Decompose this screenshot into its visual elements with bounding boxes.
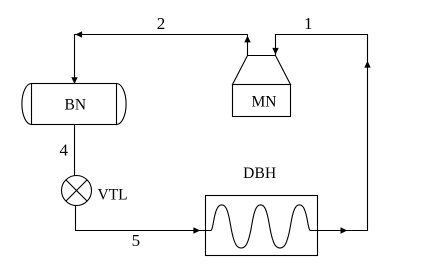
wire right riser bbox=[367, 35, 369, 232]
heater DBH box bbox=[206, 196, 318, 256]
wire VTL down bbox=[75, 206, 77, 231]
svg-text:DBH: DBH bbox=[243, 165, 276, 182]
valve VTL circle bbox=[62, 176, 92, 206]
vessel BN body bbox=[32, 84, 117, 125]
wire MN outlet up bbox=[247, 35, 249, 56]
wire stream 5 horizontal bbox=[75, 230, 206, 232]
arrowhead up on MN outlet bbox=[244, 36, 250, 43]
arrowhead down into MN bbox=[272, 48, 278, 55]
svg-text:5: 5 bbox=[132, 231, 141, 250]
svg-text:BN: BN bbox=[65, 96, 87, 113]
arrowhead up on right riser bbox=[364, 61, 370, 68]
svg-text:2: 2 bbox=[157, 14, 166, 33]
vessel BN right cap bbox=[117, 84, 127, 125]
arrowhead left at stream 2 corner bbox=[75, 31, 82, 37]
heater DBH coil bbox=[206, 205, 318, 248]
svg-text:VTL: VTL bbox=[98, 187, 128, 204]
compressor MN body bbox=[233, 85, 291, 117]
wire stream 4 BN to VTL bbox=[74, 125, 76, 177]
arrowhead down into BN bbox=[71, 77, 77, 84]
svg-text:1: 1 bbox=[304, 14, 313, 33]
valve VTL cross line 1 bbox=[66, 180, 87, 201]
compressor MN trapezoid bbox=[233, 56, 291, 85]
wire stream 2 down into BN bbox=[74, 34, 76, 84]
svg-text:4: 4 bbox=[59, 141, 68, 160]
wire stream 1 down into MN bbox=[275, 34, 277, 55]
svg-text:MN: MN bbox=[252, 94, 277, 111]
wire DBH outlet horizontal bbox=[318, 230, 369, 232]
valve VTL cross line 2 bbox=[66, 180, 87, 201]
arrowhead right on DBH outlet bbox=[341, 227, 348, 233]
wire stream 1 horizontal bbox=[276, 34, 369, 36]
arrowhead right into DBH bbox=[193, 227, 200, 233]
wire stream 2 horizontal bbox=[75, 34, 249, 36]
vessel BN left cap bbox=[22, 84, 32, 125]
